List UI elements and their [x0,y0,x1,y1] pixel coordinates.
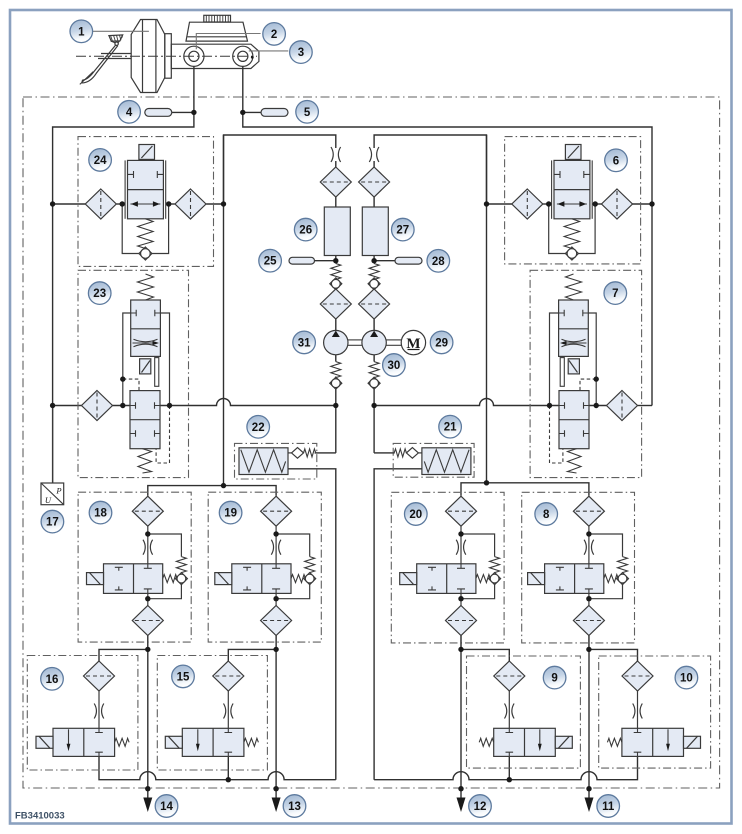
box valve 23 [78,270,189,477]
svg-text:29: 29 [435,337,448,349]
master cylinder (2,3) [171,15,259,68]
svg-text:27: 27 [396,225,409,237]
wire: center supply left circuit [224,135,336,204]
box valve 8 [522,492,635,643]
callout 28 [427,249,450,272]
wire: secondary port down [243,67,652,406]
node: valve7 feedback right [594,403,599,408]
outlet arrow 14 [143,798,152,813]
callout 10 [675,666,698,689]
pressure sensor 17 [41,406,64,506]
svg-text:5: 5 [304,107,311,119]
wire: supply tee to valves 20/8 [461,483,589,496]
wire: accumulator 21 connect [374,452,395,454]
node: valve6 left [484,201,489,206]
node: rail left / valve24 [50,201,55,206]
box accumulator 21 [393,443,474,477]
filter diamond branch 26 [320,167,351,197]
outlet arrow 12 [457,798,466,813]
svg-text:9: 9 [551,673,557,685]
box valve 19 [208,492,321,642]
svg-text:12: 12 [474,801,487,813]
callout 26 [294,218,317,241]
svg-text:6: 6 [613,155,619,167]
accumulator 27 [362,207,388,256]
check spring 26 [331,264,341,280]
wire: valve 24 row left [53,203,86,205]
check ball 27 [368,278,380,290]
wire: valve 7 row right [589,405,607,407]
svg-text:19: 19 [224,508,237,520]
svg-text:4: 4 [126,107,133,119]
wire: valve 6 row [487,203,512,205]
filter diamond right of 24 [175,189,206,219]
svg-text:13: 13 [288,801,301,813]
wire: valve 19 out tee to 15 [228,649,276,661]
accumulator 26 [324,207,350,256]
filter diamond right of 6 [602,189,633,219]
callout 25 [259,249,282,272]
callout 9 [543,666,566,689]
box valve 15 [157,656,267,771]
filter diamond left of 6 [512,189,543,219]
svg-text:30: 30 [388,360,401,372]
pump 31 [324,330,348,389]
node: pill4 tap [191,110,196,115]
wire: outlet port 12 line [460,636,462,800]
svg-text:21: 21 [444,422,457,434]
filter diamond right of 7 [607,391,638,421]
callout 6 [605,149,628,172]
pressure pill 5 [261,109,288,117]
svg-text:U: U [45,495,52,505]
wire: valve 9 bottom to return [508,756,510,779]
node: pump30 suction [371,403,376,408]
callout 5 [296,101,319,124]
filter diamond above pump 31 [320,289,351,319]
node: port14 boundary [145,786,150,791]
box valve 24 [78,137,214,267]
filter diamond left of 23 [82,391,113,421]
callout 7 [604,282,627,305]
wire: suction row right (bridges over supply) [374,399,559,406]
callout 31 [293,331,316,354]
callout 29 [430,331,453,354]
callout 2 [263,23,286,46]
wire: valve 18 out tee to 16 [99,649,148,661]
node: valve24 right port [166,201,171,206]
svg-text:17: 17 [46,517,59,529]
pedal-booster axis line [76,55,257,57]
callout 21 [439,415,462,438]
check ball 26 [330,278,342,290]
callout 24 [89,149,112,172]
callout 1 [70,20,93,43]
brake pedal (1) [80,35,131,85]
callout 20 [405,503,428,526]
callout 12 [469,795,492,818]
svg-text:2: 2 [271,29,277,41]
svg-text:22: 22 [252,422,265,434]
svg-text:20: 20 [409,509,422,521]
node: pump31 suction [333,403,338,408]
node: valve19 out tee [273,647,278,652]
node: port12 boundary [458,786,463,791]
node: valve23 pilot tap [120,376,125,381]
node: supply tee left [221,483,226,488]
callout 17 [41,510,64,533]
box valve 20 [391,492,504,643]
outlet arrow 13 [272,798,281,813]
node: valve6 port right [593,201,598,206]
node: valve24 left port [120,201,125,206]
node: valve20 out tee [458,647,463,652]
filter diamond above pump 30 [359,289,390,319]
svg-text:28: 28 [432,256,445,268]
callout 27 [392,218,415,241]
wire: pill 28 tap [374,260,395,262]
svg-text:7: 7 [612,288,618,300]
wire: pump 30 column [373,161,375,167]
svg-text:26: 26 [299,225,312,237]
wire: pill 4 tap [172,111,194,113]
wire: pill 5 tap [243,111,261,113]
inlet valve 19 [215,496,316,649]
node: pill28 tap [371,258,376,263]
motor 29 [401,330,425,354]
node: valve6 port left [546,201,551,206]
leader line callout 2 [196,34,260,50]
outlet arrow 11 [585,798,594,813]
callout 19 [219,501,242,524]
node: rail left / valve23 [50,403,55,408]
svg-text:P: P [55,486,61,496]
valve 24 changeover [122,145,168,261]
node: supply tee right [484,480,489,485]
node: pill25 tap [333,258,338,263]
wire: valve 24 row right [169,203,175,205]
callout 11 [597,795,620,818]
callout 18 [89,501,112,524]
callout 23 [88,282,111,305]
pressure pill 4 [145,109,172,117]
svg-text:1: 1 [78,26,85,38]
secondary port circle [233,46,253,66]
callout 15 [172,665,195,688]
wire: left return line with bridges [99,756,336,779]
svg-text:16: 16 [46,674,59,686]
svg-text:23: 23 [93,288,106,300]
wire: pump 31 column [335,161,337,167]
box valve 16 [27,656,138,771]
outlet valve 15 [165,661,258,756]
filter diamond left of 24 [85,189,116,219]
node: valve23 right port [167,403,172,408]
node: valve7 left port [547,403,552,408]
node: pill5 tap [240,110,245,115]
wire: right return line with bridges [374,756,637,779]
filter diamond branch 27 [359,167,390,197]
box valve 7 [530,270,642,477]
box valve 18 [78,492,191,642]
wire: primary port down [53,67,194,484]
node: valve9 return [507,777,512,782]
svg-text:15: 15 [177,671,190,683]
pressure pill 28 [395,257,422,264]
reservoir [186,22,248,41]
box valve 10 [599,656,711,768]
wire: accumulator 22 connect [315,452,336,454]
node: valve7 pilot tap [594,376,599,381]
node: valve23 feedback left [120,403,125,408]
pump 30 [362,330,386,389]
valve 6 changeover [549,145,595,261]
wire: valve 15 bottom to return [227,756,229,779]
callout 4 [118,101,141,124]
callout 3 [290,41,313,64]
pressure pill 25 [289,257,315,264]
node: valve18 out tee [145,647,150,652]
box valve 6 [505,137,641,264]
inlet valve 20 [400,496,501,649]
primary port circle [184,46,204,66]
svg-text:24: 24 [94,155,107,167]
wire: center supply right circuit [374,135,486,204]
outlet valve 10 [607,661,700,756]
node: supply left on x223 [221,201,226,206]
wire: outlet port 13 line [275,636,277,800]
callout 22 [247,416,270,439]
reservoir cap [204,15,231,22]
outlet valve 9 [479,661,572,756]
callout 16 [41,668,64,691]
wire: outlet port 11 line [588,636,590,800]
leader line callout 1 [93,30,149,32]
svg-text:25: 25 [264,256,277,268]
node: valve15 return [226,777,231,782]
callout 14 [155,795,178,818]
wire: pill 25 tap [315,260,336,262]
wire: suction row left (bridges over supply) [160,399,336,406]
node: port11 boundary [586,786,591,791]
callout 13 [283,795,306,818]
inlet valve 8 [528,496,629,649]
svg-text:18: 18 [94,508,107,520]
svg-text:11: 11 [602,801,615,813]
svg-text:10: 10 [680,673,693,685]
brake booster [131,20,171,93]
svg-text:31: 31 [298,337,311,349]
inlet valve 18 [87,496,188,649]
check spring 27 [369,264,379,280]
accumulator 21 (mirrored) [374,448,471,475]
wire: supply tee to valves 18/19 [148,486,276,496]
wire: outlet port 14 line [147,636,149,800]
node: valve8 out tee [586,647,591,652]
callout 30 [383,354,406,377]
box valve 9 [467,656,581,768]
wire: valve 23 row [53,405,82,407]
outlet valve 16 [36,661,129,756]
leader line callout 3 [249,50,288,52]
wire: valve 20 out tee to 9 [461,649,509,661]
orifice pump branch 26 [331,147,341,162]
HCU dash-dot boundary [23,97,720,788]
node: port13 boundary [273,786,278,791]
svg-text:14: 14 [160,801,173,813]
pump shaft couplings [348,340,401,345]
svg-text:8: 8 [543,509,550,521]
orifice pump branch 27 [369,147,379,162]
svg-text:FB3410033: FB3410033 [15,811,65,822]
callout 8 [535,503,558,526]
svg-text:3: 3 [298,47,304,59]
valve 23 pressure regulator [123,274,170,473]
node: rail right / valve6 [649,201,654,206]
wire: valve 8 out tee to 10 [589,649,638,661]
box accumulator 22 [235,443,317,479]
valve 7 pressure regulator (mirrored) [550,274,597,473]
accumulator 22 [239,448,336,475]
